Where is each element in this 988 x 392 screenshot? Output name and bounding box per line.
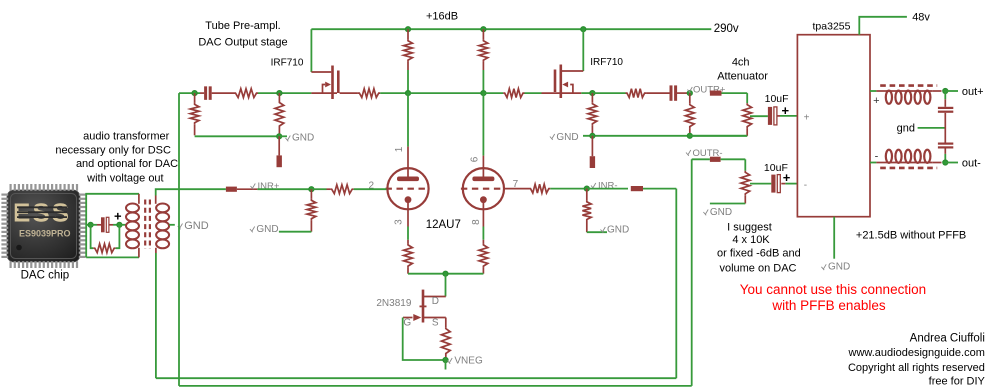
wire gate to VNEG <box>403 318 446 361</box>
transformer T1 primary <box>126 194 139 258</box>
label IRF710 right <box>590 57 623 68</box>
label title line1 <box>205 20 280 32</box>
resistor R7 shunt n3 <box>588 93 597 136</box>
wire INR+ from transformer <box>156 189 226 195</box>
label GND tpa <box>821 262 850 273</box>
label GND att2 <box>703 207 732 218</box>
wire INR- mid <box>587 188 628 190</box>
label 10uF 1 <box>765 93 789 105</box>
transformer T1 secondary <box>156 196 169 254</box>
svg-text:INR+: INR+ <box>258 181 280 192</box>
junction nodeA plate1 <box>405 91 410 96</box>
svg-text:+21.5dB without PFFB: +21.5dB without PFFB <box>856 230 966 242</box>
net bar OUTR+ <box>710 91 722 96</box>
junction OUTR+ <box>687 91 692 96</box>
svg-text:-: - <box>804 180 807 191</box>
wire out+ down <box>944 91 946 107</box>
junction nodeB plate2 <box>481 91 486 96</box>
label 12AU7 <box>426 219 461 231</box>
amplifier U2 tpa3255 box <box>797 35 870 217</box>
label 10uF 2 <box>764 162 788 174</box>
wire input corner to C1 <box>179 92 200 94</box>
label +21.5dB <box>856 230 966 242</box>
resistor R10 grid stopper <box>529 184 550 193</box>
wire n5 stub <box>86 224 90 226</box>
tube V1a 12AU7 <box>386 168 430 210</box>
svg-text:free for DIY: free for DIY <box>929 376 986 388</box>
svg-text:8: 8 <box>471 219 482 225</box>
resistor R8 grid stopper <box>330 185 354 194</box>
svg-text:IRF710: IRF710 <box>271 58 304 69</box>
wire RB to node <box>482 70 484 93</box>
resistor att1 right <box>743 103 752 136</box>
wire rail2 OUTR- return <box>179 159 692 386</box>
resistor R15 shunt <box>91 225 120 253</box>
svg-text:volume on DAC: volume on DAC <box>719 262 796 274</box>
svg-text:1: 1 <box>394 146 405 152</box>
svg-text:D: D <box>432 296 439 307</box>
inductor L1 <box>880 86 937 104</box>
wire cathode2 <box>482 210 484 244</box>
svg-text:gnd: gnd <box>897 123 915 135</box>
transistor Q2 IRF710 mirrored <box>542 65 584 99</box>
wire gnd rail stage2 <box>583 135 747 137</box>
svg-text:out+: out+ <box>962 86 984 98</box>
resistor R6 series <box>626 89 647 98</box>
label plus coil1 <box>873 95 879 107</box>
junction VNEG <box>443 357 448 362</box>
label GND grid2 <box>601 224 630 235</box>
svg-text:Attenuator: Attenuator <box>717 71 768 83</box>
wire att2 bottom gnd <box>710 203 745 205</box>
wire out+ from box <box>870 90 886 92</box>
wire R10 to n4 <box>550 188 587 190</box>
svg-text:I suggest: I suggest <box>727 221 772 233</box>
pin 8 <box>471 219 482 225</box>
label plus C3 <box>114 209 122 224</box>
label plus C4 <box>782 103 790 118</box>
svg-text:GND: GND <box>184 220 209 232</box>
wire M2 gate drop <box>582 29 584 71</box>
wire OUTR+ to att <box>722 93 748 103</box>
label G <box>403 317 411 328</box>
svg-text:3: 3 <box>394 219 405 225</box>
label 2N3819 <box>376 298 411 309</box>
label pin minus in <box>804 180 807 191</box>
svg-text:-: - <box>875 150 879 162</box>
ground rod stage1 <box>277 136 282 167</box>
wire nodeA-nodeB <box>408 92 483 94</box>
wire to n3 <box>581 92 592 94</box>
wire bias1 stub <box>279 135 287 137</box>
label out- <box>962 157 981 169</box>
pin 2 <box>369 180 375 191</box>
capacitor C2 output <box>670 85 678 100</box>
resistor R2 drain <box>358 89 380 98</box>
wire 48v <box>859 17 907 35</box>
capacitor C1 <box>204 86 212 100</box>
label Attenuator <box>717 71 768 83</box>
label audio transformer note <box>55 130 178 184</box>
resistor R4 shunt n2 <box>275 93 284 136</box>
wire out- from box <box>870 162 886 164</box>
wire rail1 INR- return <box>156 189 676 379</box>
svg-text:INR-: INR- <box>598 181 618 192</box>
svg-text:2N3819: 2N3819 <box>376 298 411 309</box>
label credits <box>848 333 986 388</box>
pin 6 <box>470 156 481 162</box>
label GND stage2 <box>550 132 579 143</box>
junction rail A <box>405 27 410 32</box>
tube V1b 12AU7 <box>461 168 505 210</box>
junction rail B <box>481 27 486 32</box>
label warning red <box>740 282 926 313</box>
wire RA to node <box>407 70 409 93</box>
wire grid2 to R10 <box>504 188 529 190</box>
wire cathode to JFET <box>445 274 447 297</box>
label OUTR+ <box>688 85 726 96</box>
label title line2 <box>198 37 287 49</box>
wire C1 to R1 <box>212 92 234 94</box>
svg-text:4ch: 4ch <box>732 57 750 69</box>
svg-text:DAC Output stage: DAC Output stage <box>198 37 287 49</box>
label DAC chip <box>21 269 70 281</box>
node rail-M1gate <box>310 29 312 72</box>
capacitor C7 filter <box>938 143 953 149</box>
svg-text:+: + <box>114 209 122 224</box>
label 48v <box>912 12 930 24</box>
wire plate2 feed <box>482 93 484 168</box>
svg-text:S: S <box>432 317 439 328</box>
wire R5 to Q2 <box>525 92 542 94</box>
svg-text:Andrea Ciuffoli: Andrea Ciuffoli <box>910 333 985 345</box>
wire R11 gnd <box>587 231 607 233</box>
svg-text:48v: 48v <box>912 12 930 24</box>
wire plate1 feed <box>407 93 409 168</box>
label gnd out <box>897 123 915 135</box>
svg-text:12AU7: 12AU7 <box>426 219 461 231</box>
wire INR+ mid <box>237 188 258 190</box>
svg-text:with voltage out: with voltage out <box>86 172 163 184</box>
svg-text:+16dB: +16dB <box>426 11 458 23</box>
label IRF710 left <box>271 58 304 69</box>
pin 1 <box>394 146 405 152</box>
junction gnd n3 <box>590 133 595 138</box>
label out+ <box>962 86 984 98</box>
junction out- <box>943 160 948 165</box>
svg-text:Tube Pre-ampl.: Tube Pre-ampl. <box>205 20 280 32</box>
label pin plus in <box>804 113 810 124</box>
svg-text:ES9039PRO: ES9039PRO <box>19 229 71 239</box>
svg-text:You cannot use this connection: You cannot use this connection <box>740 282 926 297</box>
resistor R13 cathode2 <box>479 243 488 273</box>
DAC chip U1 ES9039PRO <box>1 184 85 268</box>
svg-text:290v: 290v <box>714 23 739 35</box>
wire +16dB 290v supply rail <box>311 28 711 30</box>
wire tpa gnd stub <box>833 217 835 259</box>
svg-text:GND: GND <box>607 224 629 235</box>
junction n2 <box>277 91 282 96</box>
svg-text:with PFFB enables: with PFFB enables <box>771 298 886 313</box>
wire n3 to R6 <box>592 92 625 94</box>
wire C4 to amp <box>777 115 797 117</box>
label GND grid1 <box>250 224 279 235</box>
svg-text:out-: out- <box>962 157 981 169</box>
pin 3 <box>394 219 405 225</box>
label INR- <box>591 181 618 192</box>
label VNEG <box>447 356 483 367</box>
svg-text:GND: GND <box>710 207 732 218</box>
wire R9 gnd <box>279 231 312 233</box>
wire C7 to out- <box>944 149 946 163</box>
resistor R3 shunt n1 <box>190 93 199 135</box>
svg-text:Copyright all rights reserved: Copyright all rights reserved <box>848 362 985 374</box>
svg-text:GND: GND <box>256 224 278 235</box>
resistor R11 grid leak <box>582 189 591 233</box>
svg-text:or fixed -6dB and: or fixed -6dB and <box>717 248 801 260</box>
resistor R5 series <box>503 89 524 98</box>
svg-text:IRF710: IRF710 <box>590 57 623 68</box>
wire bias join 1 <box>195 135 280 137</box>
wire grid1 to R8 <box>311 188 330 190</box>
label OUTR- <box>686 148 723 159</box>
label GND stage1 <box>286 132 315 143</box>
transistor Q3 2N3819 <box>403 290 446 323</box>
wire Q1 drain <box>340 92 358 94</box>
wire gnd out <box>918 127 945 129</box>
junction att1 gnd <box>687 133 692 138</box>
wire input vertical <box>178 93 180 386</box>
wire secondary tap <box>169 224 175 226</box>
wire nodeB to R5 <box>483 92 503 94</box>
junction bias1 <box>277 134 282 139</box>
wire secondary bottom down <box>155 253 157 378</box>
ground rod stage2 <box>590 136 595 168</box>
wire C2 to OUTR+ <box>677 92 690 94</box>
capacitor C3 coupling <box>91 217 120 232</box>
resistor R1 series <box>234 89 258 98</box>
label S <box>432 317 439 328</box>
resistor plate-load RA <box>404 29 413 70</box>
resistor R12 cathode1 <box>404 243 413 273</box>
resistor att2 <box>741 171 750 204</box>
svg-text:tpa3255: tpa3255 <box>813 21 851 33</box>
wire C5 to amp <box>781 183 797 185</box>
net bar INR+ <box>226 187 237 192</box>
wire INR+ to grid node <box>257 188 311 190</box>
wire att1 bottom <box>690 135 747 137</box>
label 290v <box>714 23 739 35</box>
svg-text:+: + <box>873 95 879 107</box>
wire R6 to C2 <box>646 92 670 94</box>
resistor R14 source <box>441 318 450 361</box>
label GND secondary <box>178 220 209 232</box>
svg-text:+: + <box>804 113 810 124</box>
junction n1 <box>192 91 197 96</box>
capacitor C5 10uF <box>771 175 780 193</box>
wire cathode join <box>408 273 483 275</box>
wire VNEG stub <box>445 360 447 370</box>
wire OUTR- horiz <box>692 158 710 160</box>
wire out- stub <box>945 162 958 164</box>
svg-text:GND: GND <box>292 132 314 143</box>
wire R8 to grid <box>354 188 387 190</box>
svg-text:G: G <box>403 317 411 328</box>
junction n5 <box>88 222 93 227</box>
pin 7 <box>513 179 519 190</box>
wire att1 wiper <box>750 115 768 117</box>
junction n3 <box>590 91 595 96</box>
net bar INR- <box>631 186 643 191</box>
wire R1 to n2 <box>258 92 311 94</box>
svg-text:audio transformer: audio transformer <box>83 130 170 142</box>
svg-text:4 x 10K: 4 x 10K <box>732 234 770 246</box>
svg-text:GND: GND <box>828 262 850 273</box>
svg-text:DAC chip: DAC chip <box>21 269 70 281</box>
label plus C5 <box>783 170 791 185</box>
wire INR- to corner <box>643 188 676 190</box>
label 4ch <box>732 57 750 69</box>
svg-text:and optional for DAC: and optional for DAC <box>76 158 178 170</box>
transistor Q1 IRF710 <box>311 66 338 100</box>
inductor L2 <box>880 150 937 168</box>
junction rail C <box>581 27 586 32</box>
capacitor C4 10uF <box>768 107 777 125</box>
label I suggest block <box>717 221 801 274</box>
label INR+ <box>251 181 280 192</box>
resistor att1 left <box>685 93 694 136</box>
svg-text:necessary only for DSC: necessary only for DSC <box>55 144 171 156</box>
net bar OUTR- <box>710 157 721 162</box>
wire cathode1 <box>407 210 409 244</box>
label D <box>432 296 439 307</box>
svg-text:6: 6 <box>470 156 481 162</box>
svg-text:GND: GND <box>556 132 578 143</box>
label tpa3255 <box>813 21 851 33</box>
label +16dB <box>426 11 458 23</box>
wire att2 wiper <box>750 183 771 185</box>
wire chip loop <box>86 194 139 258</box>
wire L2 to out- <box>933 162 942 164</box>
wire between caps <box>944 113 946 143</box>
transformer T1 core <box>145 200 150 250</box>
wire n6 to primary <box>119 224 126 226</box>
wire OUTR- to att2 <box>721 159 746 171</box>
junction grid2 <box>584 186 589 191</box>
resistor R9 grid leak <box>307 189 316 232</box>
junction cathode <box>443 271 448 276</box>
junction n6 <box>117 222 122 227</box>
wire out+ stub <box>945 90 958 92</box>
capacitor C6 filter <box>938 107 953 113</box>
label minus coil2 <box>875 150 879 162</box>
junction grid1 <box>309 187 314 192</box>
junction out+ <box>943 88 948 93</box>
capacitor C1 lead <box>200 92 204 94</box>
wire L1 to out+ <box>933 90 942 92</box>
resistor plate-load RB <box>479 29 488 70</box>
svg-text:VNEG: VNEG <box>454 356 483 367</box>
wire Q2 drain <box>562 92 581 94</box>
wire R2 to nodeA <box>380 92 408 94</box>
svg-text:www.audiodesignguide.com: www.audiodesignguide.com <box>848 347 985 359</box>
